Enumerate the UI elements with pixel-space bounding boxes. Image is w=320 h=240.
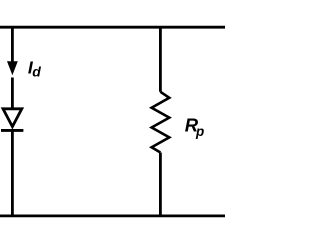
svg-text:p: p <box>195 124 204 139</box>
svg-text:d: d <box>32 64 41 80</box>
